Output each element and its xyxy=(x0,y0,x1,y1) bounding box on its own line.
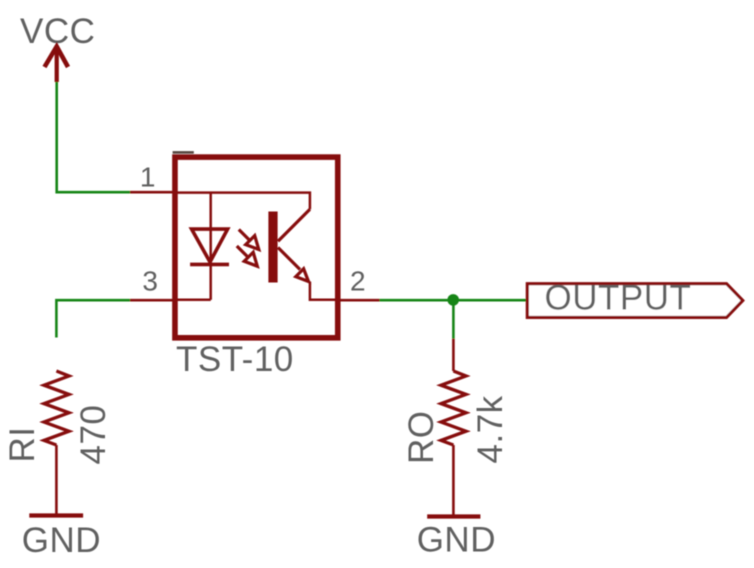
svg-text:RI: RI xyxy=(3,427,42,463)
svg-text:GND: GND xyxy=(22,521,101,560)
svg-text:470: 470 xyxy=(74,405,113,465)
svg-text:2: 2 xyxy=(350,266,366,297)
svg-text:3: 3 xyxy=(142,266,158,297)
svg-text:RO: RO xyxy=(402,411,441,465)
svg-text:OUTPUT: OUTPUT xyxy=(545,279,692,318)
svg-text:TST-10: TST-10 xyxy=(176,340,294,379)
svg-text:GND: GND xyxy=(417,520,496,559)
svg-text:1: 1 xyxy=(140,162,156,193)
svg-text:4.7k: 4.7k xyxy=(471,395,510,463)
